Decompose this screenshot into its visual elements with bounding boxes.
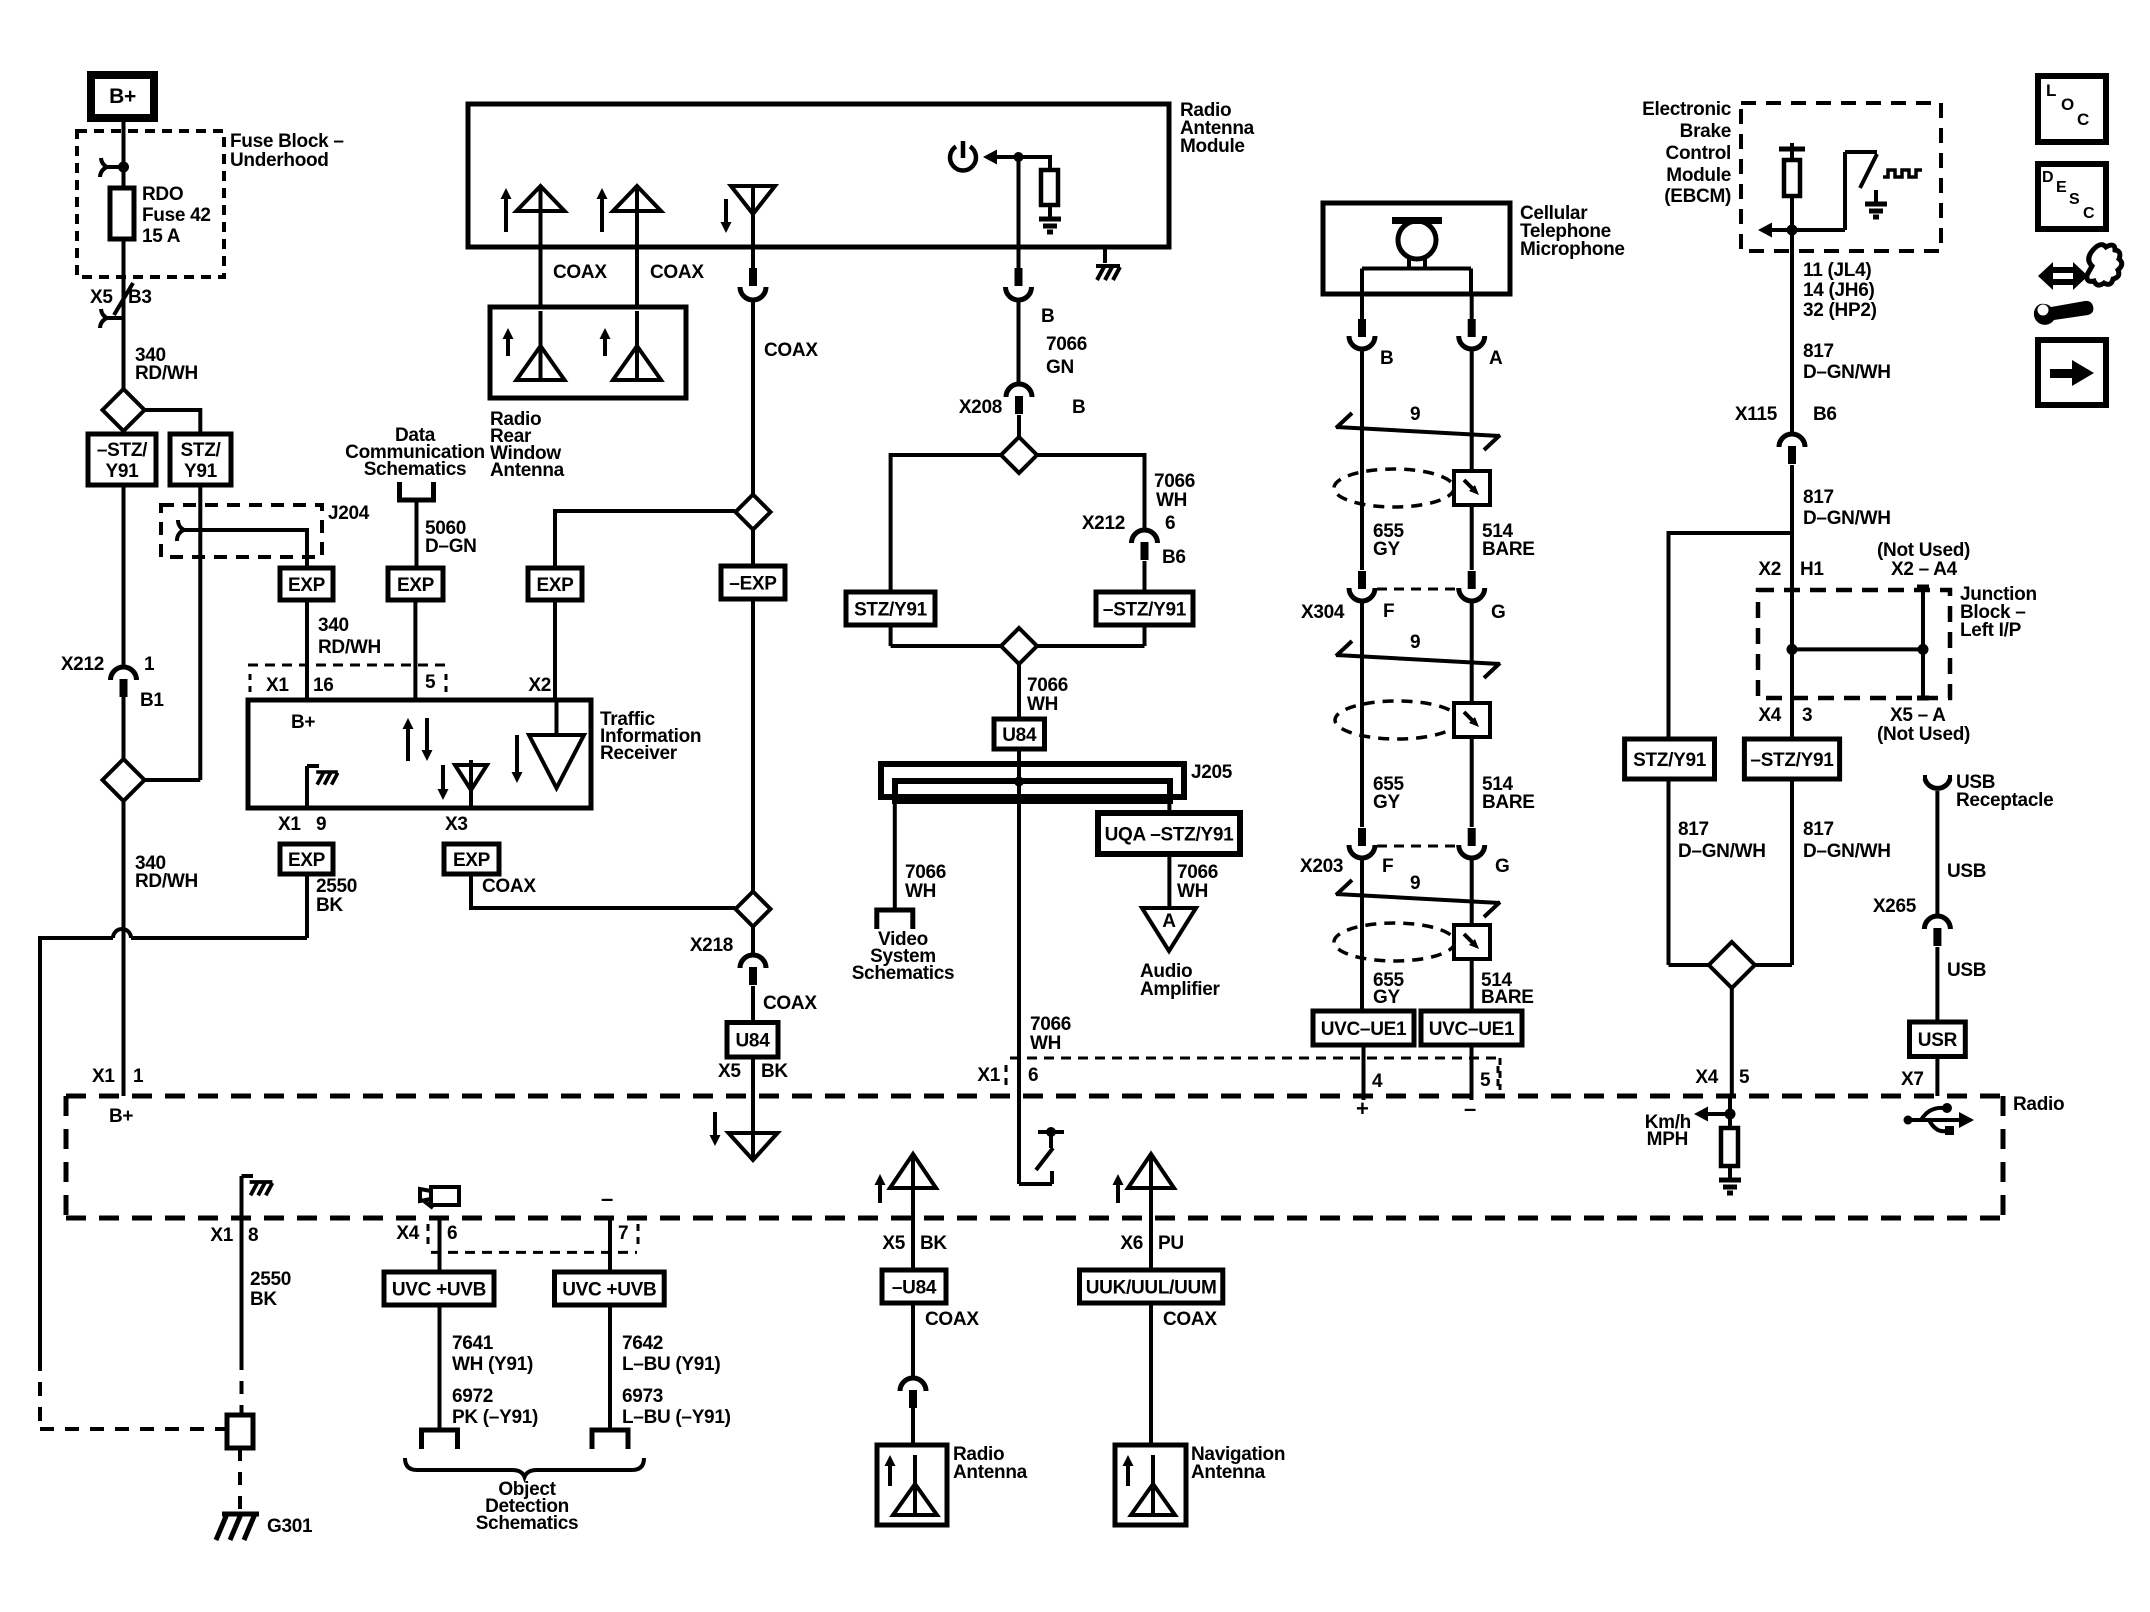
svg-text:F: F <box>1383 601 1394 622</box>
wire to splice S2 <box>145 778 201 782</box>
svg-text:B+: B+ <box>109 1106 133 1127</box>
svg-text:Electronic: Electronic <box>1642 99 1732 120</box>
EBCM switch blade <box>1860 154 1877 188</box>
connector mic A <box>1468 319 1476 337</box>
radio antenna input symbol <box>751 1096 755 1160</box>
wire D4 to X218 <box>751 927 755 956</box>
svg-text:E: E <box>2056 179 2067 196</box>
twisted pair symbol 3 <box>1336 894 1500 903</box>
option box UVC+UVB right <box>555 1272 665 1305</box>
svg-text:X5: X5 <box>882 1233 905 1254</box>
radio speed resistor <box>1728 1096 1732 1128</box>
svg-text:RDO: RDO <box>142 184 183 205</box>
svg-text:+: + <box>1356 1096 1369 1121</box>
svg-text:RD/WH: RD/WH <box>135 871 198 892</box>
wire F to X203 <box>1360 602 1364 827</box>
module junction dot <box>1014 152 1024 162</box>
svg-text:COAX: COAX <box>650 262 704 283</box>
svg-text:Schematics: Schematics <box>476 1513 579 1534</box>
object detection connector dashed <box>431 1251 637 1254</box>
svg-text:8: 8 <box>248 1225 258 1246</box>
svg-text:BK: BK <box>761 1061 788 1082</box>
radio camera icon <box>431 1187 459 1205</box>
svg-text:X1: X1 <box>92 1066 115 1087</box>
wire module to X208 <box>1017 247 1021 268</box>
shield ellipse 3 <box>1334 923 1455 961</box>
svg-text:BK: BK <box>920 1233 947 1254</box>
connector X203 G <box>1468 828 1476 846</box>
wire U84 to J205 <box>1017 749 1021 782</box>
wire B+ to fuse <box>122 118 126 167</box>
svg-text:817: 817 <box>1678 819 1709 840</box>
splice diamond D3 <box>736 495 771 530</box>
svg-text:Module: Module <box>1666 165 1731 186</box>
svg-text:X218: X218 <box>690 935 733 956</box>
svg-text:32 (HP2): 32 (HP2) <box>1803 300 1877 321</box>
module chassis ground <box>1103 247 1107 263</box>
J204 branch wire to EXP <box>199 528 307 532</box>
option box STZ/Y91 ebcm <box>1625 739 1715 779</box>
svg-text:D–GN/WH: D–GN/WH <box>1678 841 1766 862</box>
svg-text:D–GN/WH: D–GN/WH <box>1803 508 1891 529</box>
splice block J204 dashed box <box>161 505 322 557</box>
receiver internal ground <box>305 766 309 808</box>
splice diamond S2 <box>103 759 145 801</box>
wire connector to X208 <box>1017 300 1021 384</box>
svg-text:B: B <box>1072 397 1085 418</box>
svg-text:A: A <box>1162 911 1176 932</box>
wire EXP to receiver X1-16 <box>305 600 309 700</box>
comes-from staple <box>400 482 434 500</box>
svg-text:L–BU (–Y91): L–BU (–Y91) <box>622 1407 731 1428</box>
svg-text:USB: USB <box>1947 861 1986 882</box>
wire UVC left to radio pin 4 <box>1362 1045 1366 1100</box>
module dashed box Radio <box>66 1094 2003 1099</box>
svg-text:UVC +UVB: UVC +UVB <box>392 1279 486 1300</box>
svg-text:X304: X304 <box>1301 602 1345 623</box>
option box STZ/Y91 right <box>170 434 231 485</box>
wire U84 to radio X5 <box>751 1057 755 1096</box>
wire J205 to radio X1-6 <box>1017 782 1021 1097</box>
connector X203 F <box>1358 828 1366 846</box>
receiver antenna X2 triangle <box>529 735 584 788</box>
wire -U84 to connector <box>911 1303 915 1378</box>
wire -EXP to diamond D4 <box>751 599 755 892</box>
legend double arrow wrench icon <box>2052 270 2076 282</box>
wire UVC+UVB left down <box>438 1305 442 1430</box>
connector X212 pin 6 <box>1132 530 1158 543</box>
option box EXP 2 <box>388 568 443 600</box>
connector mic B <box>1358 319 1366 337</box>
module resistor ground <box>1048 205 1052 219</box>
EBCM junction dot <box>1787 225 1798 236</box>
branch wire to STZ/Y91 <box>1669 531 1793 535</box>
option box UUK/UUL/UUM <box>1080 1270 1223 1303</box>
svg-text:X5: X5 <box>90 287 113 308</box>
svg-text:5: 5 <box>425 672 436 693</box>
svg-text:X265: X265 <box>1873 896 1917 917</box>
wire X212 to splice S2 <box>122 697 126 761</box>
svg-text:G: G <box>1495 856 1509 877</box>
option box U84 <box>727 1023 778 1058</box>
wire X208 to diamond D5 <box>1017 415 1021 437</box>
wire EXP4 to ground bus <box>305 874 309 938</box>
svg-text:7066: 7066 <box>1027 675 1068 696</box>
svg-text:–STZ/Y91: –STZ/Y91 <box>1750 750 1834 771</box>
module antenna 1 <box>539 186 543 247</box>
svg-text:J204: J204 <box>328 503 370 524</box>
svg-text:X1: X1 <box>977 1065 1000 1086</box>
audio amplifier triangle A <box>1142 908 1196 951</box>
svg-text:STZ/Y91: STZ/Y91 <box>1633 750 1707 771</box>
splice diamond D6 <box>1001 628 1037 664</box>
option box -EXP <box>721 566 785 599</box>
option box EXP 3 <box>528 568 582 600</box>
svg-text:Receptacle: Receptacle <box>1956 790 2053 811</box>
J204 terminal hook <box>177 520 199 541</box>
svg-text:6973: 6973 <box>622 1386 663 1407</box>
connector X304 dashed line <box>1377 588 1457 591</box>
rear window antenna 1 <box>539 346 543 380</box>
option box UVC-UE1 left <box>1313 1011 1414 1045</box>
svg-text:X1: X1 <box>278 814 301 835</box>
svg-text:X1: X1 <box>210 1225 233 1246</box>
svg-text:2550: 2550 <box>316 876 357 897</box>
radio antenna out arrow X5 <box>878 1182 882 1203</box>
radio antenna out symbol X5 <box>911 1154 915 1218</box>
terminal hook below fuse block <box>100 309 124 328</box>
svg-text:X212: X212 <box>61 654 104 675</box>
svg-text:6: 6 <box>447 1223 457 1244</box>
receiver data arrows <box>406 726 410 761</box>
svg-text:–U84: –U84 <box>892 1277 937 1298</box>
svg-text:B: B <box>1041 306 1054 327</box>
branch wire diamond to STZ/Y91 <box>145 408 201 412</box>
svg-text:Amplifier: Amplifier <box>1140 979 1221 1000</box>
svg-text:EXP: EXP <box>453 850 491 871</box>
fuse block terminal hook <box>100 158 124 177</box>
wire G to UVC right <box>1470 859 1474 1011</box>
svg-text:BARE: BARE <box>1482 539 1535 560</box>
svg-text:7: 7 <box>618 1223 628 1244</box>
svg-text:11 (JL4): 11 (JL4) <box>1803 260 1871 281</box>
wire STZ/Y91 down through J204 <box>198 485 202 780</box>
svg-text:B6: B6 <box>1813 404 1837 425</box>
svg-text:WH: WH <box>1030 1033 1061 1054</box>
module antenna 3 down <box>751 186 755 247</box>
svg-text:X5: X5 <box>718 1061 741 1082</box>
wire UVC right to radio pin 5 <box>1470 1045 1474 1100</box>
svg-text:D: D <box>2042 169 2053 186</box>
wire D3 to -EXP <box>751 530 755 567</box>
svg-text:MPH: MPH <box>1647 1129 1688 1150</box>
wire camera to UVC+UVB left <box>438 1218 442 1272</box>
wire USR to radio X7 <box>1935 1057 1939 1097</box>
svg-text:5: 5 <box>1739 1067 1750 1088</box>
svg-text:RD/WH: RD/WH <box>318 637 381 658</box>
wire STZ to diamond D6 <box>889 625 893 646</box>
twisted pair symbol 2 <box>1336 655 1500 664</box>
wire EXP3 to receiver X2 <box>553 600 557 700</box>
svg-text:BARE: BARE <box>1481 987 1534 1008</box>
svg-text:B1: B1 <box>140 690 164 711</box>
option box -STZ/Y91 mid <box>1096 592 1193 625</box>
junction dot J205 <box>1014 777 1024 787</box>
wire X115 to branch <box>1790 465 1794 533</box>
option box UVC-UE1 right <box>1421 1011 1522 1045</box>
option box -STZ/Y91 left <box>88 434 156 485</box>
svg-text:X4: X4 <box>1695 1067 1718 1088</box>
option box UVC+UVB left <box>384 1272 494 1305</box>
svg-text:7642: 7642 <box>622 1333 663 1354</box>
radio ignition switch symbol <box>1017 1096 1021 1184</box>
svg-text:817: 817 <box>1803 819 1834 840</box>
svg-text:STZ/: STZ/ <box>181 440 222 461</box>
rear window antenna 2 arrow <box>603 336 607 356</box>
svg-text:H1: H1 <box>1800 559 1824 580</box>
svg-text:X2: X2 <box>528 675 551 696</box>
receiver connector dashed line X1 <box>248 664 445 667</box>
svg-text:Fuse 42: Fuse 42 <box>142 205 211 226</box>
wire pin7 to UVC+UVB right <box>608 1218 612 1272</box>
inline connector below module <box>1015 268 1023 286</box>
terminal staple left <box>422 1430 458 1449</box>
svg-text:EXP: EXP <box>536 575 574 596</box>
EBCM wire resistor to junction <box>1790 196 1794 230</box>
module box Navigation Antenna <box>1115 1445 1186 1525</box>
svg-text:EXP: EXP <box>288 575 326 596</box>
svg-text:X4: X4 <box>1758 705 1781 726</box>
wire antenna2 to rear window box <box>635 247 639 307</box>
legend DESC box <box>2038 164 2106 229</box>
svg-text:X1: X1 <box>266 675 289 696</box>
svg-text:GY: GY <box>1373 987 1400 1008</box>
receiver antenna X3 <box>469 760 473 808</box>
wire staple to EXP2 <box>415 500 419 568</box>
svg-text:PK (–Y91): PK (–Y91) <box>452 1407 538 1428</box>
module antenna 3 arrow <box>724 199 728 225</box>
svg-text:D–GN: D–GN <box>425 536 477 557</box>
coax inline connector <box>749 268 757 286</box>
wire connector to diamond D3 <box>751 300 755 495</box>
wire D7 to radio X4-5 <box>1730 988 1734 1096</box>
connector X304 F <box>1358 571 1366 589</box>
svg-text:Microphone: Microphone <box>1520 239 1625 260</box>
radio speed ground <box>1728 1166 1732 1179</box>
svg-text:817: 817 <box>1803 341 1834 362</box>
svg-text:GY: GY <box>1373 792 1400 813</box>
receiver antenna X3 arrow <box>441 765 445 792</box>
shield ellipse 2 <box>1335 701 1459 739</box>
svg-text:7066: 7066 <box>1046 334 1087 355</box>
svg-text:5: 5 <box>1480 1070 1491 1091</box>
svg-text:STZ/Y91: STZ/Y91 <box>854 599 928 620</box>
svg-text:6: 6 <box>1028 1065 1038 1086</box>
svg-text:Underhood: Underhood <box>230 150 329 171</box>
svg-text:3: 3 <box>1802 705 1812 726</box>
module box Traffic Information Receiver <box>248 700 591 808</box>
svg-text:1: 1 <box>133 1066 144 1087</box>
receiver antenna X2 arrow <box>515 735 519 775</box>
svg-text:X208: X208 <box>959 397 1002 418</box>
svg-text:(EBCM): (EBCM) <box>1664 186 1731 207</box>
splice diamond D5 <box>1001 437 1037 473</box>
svg-text:X5 – A: X5 – A <box>1890 705 1946 726</box>
connector X212 pin 1 <box>111 667 137 680</box>
wire radio to UUK box <box>1149 1218 1153 1270</box>
wire receptacle to X265 <box>1935 791 1939 916</box>
splice diamond D7 <box>1709 942 1755 988</box>
power feed B+ symbol <box>91 75 154 118</box>
svg-text:G301: G301 <box>267 1516 313 1537</box>
svg-text:Fuse Block –: Fuse Block – <box>230 131 344 152</box>
wire EXP5 to coax diamond <box>469 874 473 908</box>
wire -STZ to diamond D7 <box>1790 779 1794 965</box>
fuse block dashed box Fuse Block - Underhood <box>77 131 224 277</box>
svg-text:USR: USR <box>1918 1030 1958 1051</box>
radio antenna inner arrow <box>888 1463 892 1486</box>
svg-text:COAX: COAX <box>1163 1309 1217 1330</box>
svg-text:15 A: 15 A <box>142 226 181 247</box>
wire to junction block X2-H1 <box>1790 533 1794 590</box>
radio antenna input arrow <box>713 1112 717 1138</box>
svg-text:Control: Control <box>1666 143 1731 164</box>
svg-text:EXP: EXP <box>288 850 326 871</box>
object detection brace <box>405 1458 644 1477</box>
svg-text:14 (JH6): 14 (JH6) <box>1803 280 1875 301</box>
svg-text:S: S <box>2069 191 2080 208</box>
svg-text:L–BU (Y91): L–BU (Y91) <box>622 1354 720 1375</box>
ground bus dashed to G301 <box>38 1357 42 1429</box>
svg-text:–STZ/: –STZ/ <box>97 440 148 461</box>
junction block dashed box Left I/P <box>1758 590 1950 698</box>
module antenna 2 <box>635 186 639 247</box>
svg-text:9: 9 <box>1410 404 1420 425</box>
wire X218 to U84 <box>751 986 755 1023</box>
wire junction block to -STZ/Y91 <box>1790 698 1794 739</box>
junction block wire through <box>1790 590 1794 698</box>
splice diamond S1 <box>103 389 145 431</box>
option box -STZ/Y91 ebcm <box>1744 739 1839 779</box>
svg-text:340: 340 <box>318 615 349 636</box>
svg-text:16: 16 <box>313 675 334 696</box>
svg-text:Brake: Brake <box>1680 121 1731 142</box>
svg-text:X7: X7 <box>1901 1069 1924 1090</box>
wire antenna3 to connector <box>751 247 755 268</box>
module wire down <box>1017 157 1021 247</box>
wire D5 to -STZ/Y91 via X212-6 <box>1037 453 1145 457</box>
svg-text:EXP: EXP <box>397 575 435 596</box>
J205 right drop <box>1167 801 1171 813</box>
radio antenna out arrow X6 <box>1116 1182 1120 1203</box>
nav antenna inner symbol <box>1151 1484 1155 1515</box>
module power symbol <box>950 147 976 171</box>
module power arrow <box>992 155 1018 159</box>
svg-text:C: C <box>2077 110 2089 129</box>
option box UQA -STZ/Y91 <box>1098 813 1240 854</box>
svg-text:X6: X6 <box>1120 1233 1143 1254</box>
option box EXP 5 <box>444 844 499 874</box>
svg-text:BARE: BARE <box>1482 792 1535 813</box>
svg-text:F: F <box>1382 856 1393 877</box>
svg-text:COAX: COAX <box>925 1309 979 1330</box>
wire -STZ/Y91 to X212 <box>122 485 126 667</box>
module antenna 2 arrow <box>600 196 604 232</box>
wire G to X203 <box>1470 602 1474 827</box>
wire EXP2 to receiver pin 5 <box>413 600 417 700</box>
svg-text:UVC–UE1: UVC–UE1 <box>1321 1019 1407 1040</box>
svg-text:Antenna: Antenna <box>953 1462 1028 1483</box>
option box U84 mid <box>994 719 1045 749</box>
connector X218 <box>740 955 766 968</box>
svg-text:X2 – A4: X2 – A4 <box>1891 559 1958 580</box>
wire fuse to X5 pin <box>122 239 126 389</box>
svg-text:Receiver: Receiver <box>600 743 678 764</box>
radio speed signal arrow <box>1703 1112 1730 1116</box>
option box USR <box>1910 1022 1966 1057</box>
svg-text:2550: 2550 <box>250 1269 291 1290</box>
svg-text:Antenna: Antenna <box>1191 1462 1266 1483</box>
connector X265 <box>1924 916 1950 929</box>
svg-text:A: A <box>1489 348 1503 369</box>
EBCM pwm signal glyph <box>1883 170 1922 177</box>
svg-text:UVC–UE1: UVC–UE1 <box>1429 1019 1515 1040</box>
connector X115 <box>1779 434 1805 447</box>
svg-text:–: – <box>601 1186 613 1211</box>
svg-text:D–GN/WH: D–GN/WH <box>1803 362 1891 383</box>
ground bus wire 2550 BK <box>131 936 307 940</box>
option box STZ/Y91 mid <box>846 592 935 625</box>
wire F to UVC left <box>1360 859 1364 1011</box>
module box Cellular Telephone Microphone <box>1323 203 1510 294</box>
svg-text:USB: USB <box>1947 960 1986 981</box>
option box -U84 <box>882 1270 946 1303</box>
EBCM coil top bar <box>1779 147 1805 152</box>
ground splice square <box>227 1415 253 1448</box>
radio antenna out symbol X6 <box>1149 1154 1153 1218</box>
svg-text:B+: B+ <box>291 712 315 733</box>
module box Radio Antenna <box>877 1445 947 1525</box>
wire UVC+UVB right down <box>608 1305 612 1430</box>
svg-text:X3: X3 <box>445 814 468 835</box>
svg-text:Radio: Radio <box>2013 1094 2064 1115</box>
J205 left drop <box>893 801 897 910</box>
svg-text:O: O <box>2061 95 2074 114</box>
wire X265 to USR <box>1935 947 1939 1022</box>
svg-text:PU: PU <box>1158 1233 1184 1254</box>
EBCM switch branch <box>1843 152 1847 230</box>
svg-text:BK: BK <box>316 895 343 916</box>
svg-text:(Not Used): (Not Used) <box>1877 724 1970 745</box>
svg-text:COAX: COAX <box>553 262 607 283</box>
svg-text:6972: 6972 <box>452 1386 493 1407</box>
svg-text:–STZ/Y91: –STZ/Y91 <box>1103 599 1187 620</box>
wire S2 down to radio X1-1 <box>122 801 126 1096</box>
EBCM resistor <box>1784 160 1800 196</box>
radio ground X1-8 <box>240 1176 244 1218</box>
fuse RDO Fuse 42 15A <box>110 188 134 239</box>
svg-text:B: B <box>1380 348 1393 369</box>
svg-text:BK: BK <box>250 1289 277 1310</box>
svg-text:U84: U84 <box>736 1031 771 1052</box>
svg-text:4: 4 <box>1372 1071 1383 1092</box>
svg-text:Module: Module <box>1180 136 1245 157</box>
wire -STZ to diamond D6 <box>1143 625 1147 646</box>
svg-text:COAX: COAX <box>763 993 817 1014</box>
junction block internal bus <box>1787 644 1798 655</box>
splice diamond D4 <box>736 892 771 927</box>
terminal staple right <box>592 1430 628 1449</box>
